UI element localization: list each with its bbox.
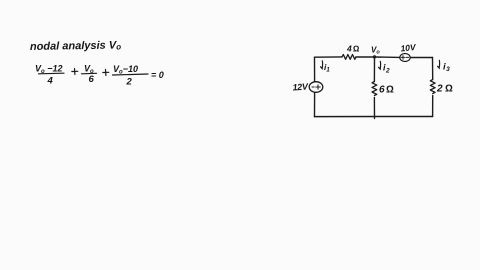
equation fraction 2 bar (82, 72, 97, 75)
label 2 ohm (436, 84, 455, 95)
svg-text:2: 2 (126, 76, 133, 87)
wire left upper segment (314, 57, 316, 81)
current arrow i2 (379, 61, 390, 74)
equation fraction 1 bar (39, 72, 65, 75)
plus sign 1 (72, 69, 78, 75)
svg-text:nodal analysis Vo: nodal analysis Vo (30, 39, 121, 53)
wire middle branch lower (373, 98, 375, 119)
resistor R2 6ohm zigzag (372, 82, 377, 96)
plus sign 2 (103, 70, 109, 76)
equation fraction 2 denominator (6) (89, 74, 95, 85)
svg-text:= 0: = 0 (151, 70, 164, 80)
label 12V (292, 81, 309, 92)
wire left lower segment (314, 92, 316, 116)
svg-text:12V: 12V (292, 81, 309, 92)
wire resistor to node V0 (356, 56, 375, 58)
equation fraction 1 numerator (V0 - 12) (35, 63, 62, 75)
wire right lower segment (432, 96, 434, 117)
equation fraction 1 denominator (4) (47, 75, 54, 86)
svg-text:4: 4 (47, 75, 54, 86)
svg-text:2Ω: 2Ω (436, 84, 455, 95)
svg-text:6: 6 (89, 74, 95, 85)
wire node V0 to 10V source (375, 56, 401, 58)
equation fraction 3 bar (113, 74, 149, 75)
label 6 ohm (379, 85, 395, 96)
wire top-left segment (315, 56, 343, 58)
svg-text:4Ω: 4Ω (346, 44, 361, 54)
equals zero (151, 70, 164, 80)
equation fraction 3 numerator (V0 - 10) (113, 64, 138, 76)
current arrow i1 (321, 61, 331, 74)
node V0 dot (373, 55, 376, 58)
wire right upper segment (432, 58, 434, 80)
wire 10V source to top-right corner (410, 57, 432, 59)
svg-text:10V: 10V (400, 42, 417, 54)
current arrow i3 (438, 60, 451, 73)
svg-text:Vo−10: Vo−10 (113, 64, 138, 76)
voltage source 10V (400, 54, 410, 62)
voltage source 12V (309, 82, 323, 93)
label 4 ohm (346, 44, 361, 54)
label 10V (400, 42, 417, 54)
wire bottom (315, 116, 433, 118)
svg-text:6Ω: 6Ω (379, 85, 395, 96)
equation fraction 3 denominator (2) (126, 76, 133, 87)
wire middle branch upper (373, 57, 375, 82)
title text "nodal analysis V0" (30, 39, 121, 53)
label V0 (371, 46, 380, 56)
equation fraction 2 numerator (V0) (84, 63, 94, 75)
resistor R3 2ohm zigzag (430, 80, 435, 94)
resistor R1 4ohm zigzag (342, 55, 356, 60)
